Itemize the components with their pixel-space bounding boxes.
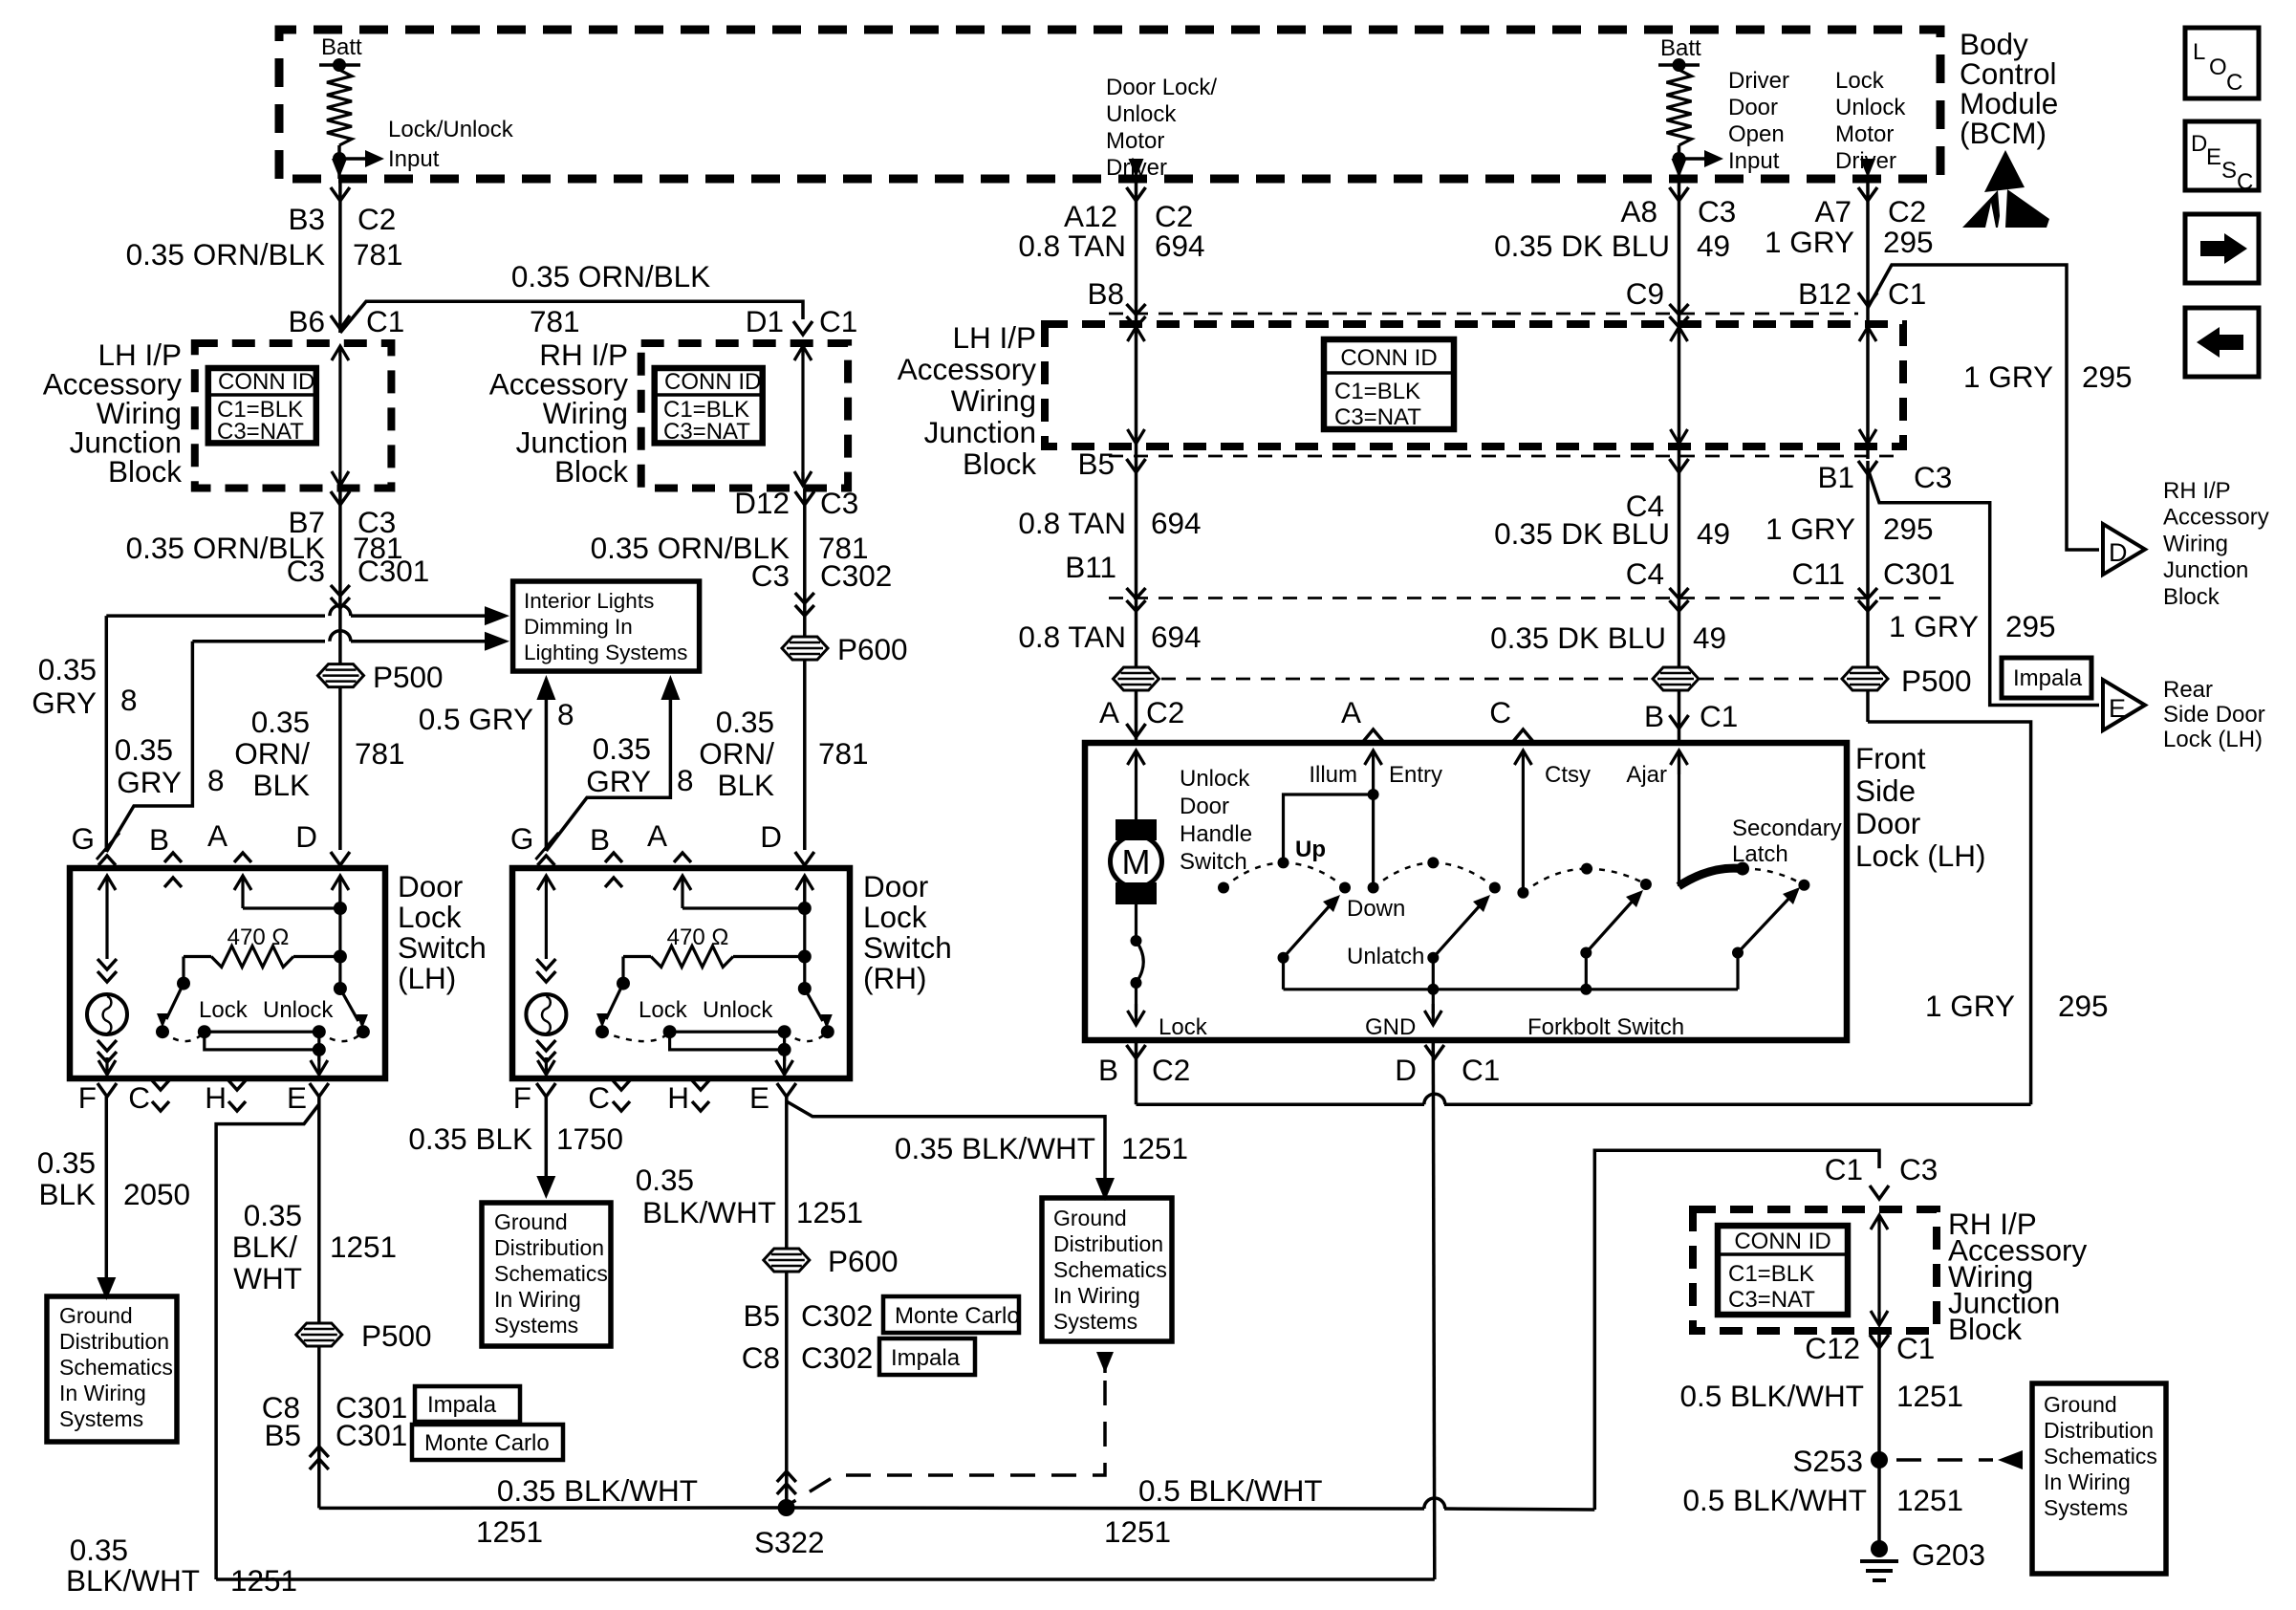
svg-text:A8: A8 [1620, 194, 1657, 228]
svg-text:1251: 1251 [1896, 1483, 1963, 1517]
svg-text:C: C [588, 1080, 610, 1115]
svg-text:Door: Door [1728, 95, 1778, 120]
svg-text:C3=NAT: C3=NAT [217, 419, 304, 445]
dashed reference from S253 to ground schematics [1896, 1458, 1993, 1462]
svg-text:0.35: 0.35 [70, 1533, 128, 1567]
svg-text:Lock: Lock [199, 997, 249, 1023]
svg-text:B: B [1644, 699, 1664, 733]
svg-text:C4: C4 [1626, 556, 1664, 591]
svg-text:Input: Input [1728, 148, 1780, 174]
wire B7/C3 below junction block [338, 489, 342, 851]
svg-text:0.35 BLK/WHT: 0.35 BLK/WHT [895, 1131, 1095, 1165]
svg-text:Entry: Entry [1389, 762, 1442, 788]
svg-text:Up: Up [1295, 837, 1326, 862]
far-left 1251 bottom run joining D/C1 ground [216, 1577, 1435, 1581]
svg-text:Impala: Impala [891, 1345, 961, 1371]
Ground Distribution box (center) [482, 1203, 611, 1346]
svg-text:C302: C302 [801, 1298, 873, 1333]
Ground Distribution box (bottom right) [2032, 1383, 2166, 1574]
svg-text:Monte Carlo: Monte Carlo [895, 1303, 1020, 1329]
down contact arc [1427, 857, 1439, 868]
svg-text:295: 295 [1883, 511, 1934, 546]
connector P500 on DK BLU wire [1653, 667, 1699, 690]
svg-text:Switch: Switch [1180, 849, 1247, 875]
Interior Lights Dimming box [513, 581, 700, 671]
svg-text:Systems: Systems [494, 1313, 578, 1338]
svg-text:Lock (LH): Lock (LH) [2163, 727, 2263, 752]
svg-text:0.35: 0.35 [37, 1145, 96, 1180]
svg-text:(LH): (LH) [398, 961, 456, 995]
svg-text:C1: C1 [1896, 1331, 1935, 1365]
svg-text:295: 295 [2005, 609, 2056, 643]
svg-text:In Wiring: In Wiring [494, 1287, 581, 1312]
svg-text:B5: B5 [743, 1298, 780, 1333]
svg-text:C2: C2 [1888, 194, 1926, 228]
svg-text:Unlock: Unlock [1180, 766, 1250, 792]
svg-text:C8: C8 [742, 1340, 780, 1375]
svg-text:1 GRY: 1 GRY [1925, 989, 2015, 1023]
ground bus inside lock [1282, 958, 1285, 990]
Body Control Module (BCM) dashed outline [279, 30, 1940, 179]
svg-text:GRY: GRY [32, 685, 97, 720]
switch G wire with lamp [105, 876, 108, 899]
svg-text:0.35 ORN/BLK: 0.35 ORN/BLK [511, 259, 710, 294]
svg-text:C3: C3 [820, 486, 858, 520]
svg-text:BLK/: BLK/ [232, 1229, 298, 1264]
svg-text:Input: Input [388, 146, 440, 172]
terminal chevrons above box edge [605, 853, 622, 862]
svg-text:B12: B12 [1798, 276, 1852, 311]
connector P500 on GRY wire [1842, 667, 1888, 690]
CONN ID table (LH I/P) [208, 368, 316, 443]
Front Side Door Lock (LH) box [1085, 743, 1847, 1040]
svg-text:G: G [510, 821, 534, 856]
svg-text:C301: C301 [336, 1418, 407, 1452]
RH I/P Accessory Wiring Junction Block (upper) dashed box [641, 343, 848, 489]
wire B3/C2 from BCM [338, 179, 342, 333]
ctsy wire [1522, 751, 1525, 893]
wire A8/C3 0.35 DK BLU 49 from BCM [1678, 179, 1681, 743]
svg-text:Wiring: Wiring [951, 383, 1036, 418]
svg-text:C301: C301 [1883, 556, 1955, 591]
svg-text:Accessory: Accessory [898, 352, 1037, 386]
svg-text:Schematics: Schematics [1053, 1257, 1167, 1282]
ESD sensitivity symbol [1984, 150, 2025, 192]
svg-text:Lock: Lock [1159, 1014, 1208, 1040]
svg-text:0.35: 0.35 [716, 705, 774, 739]
svg-text:Accessory: Accessory [2163, 505, 2269, 531]
svg-text:(RH): (RH) [863, 961, 926, 995]
svg-text:Block: Block [554, 454, 628, 489]
ground G203 [1871, 1540, 1888, 1557]
Door Lock Switch (RH) box [512, 868, 850, 1078]
connector P500 on 781 wire [318, 664, 364, 687]
svg-text:A: A [647, 818, 667, 853]
svg-text:Unlock: Unlock [1106, 101, 1177, 127]
LOC reference box [2185, 28, 2259, 98]
svg-text:GND: GND [1365, 1014, 1416, 1040]
svg-text:C3: C3 [1914, 460, 1952, 494]
svg-text:C301: C301 [357, 554, 429, 588]
switch A terminal wire [681, 876, 683, 908]
svg-text:0.35: 0.35 [115, 732, 173, 767]
svg-text:Latch: Latch [1732, 841, 1788, 867]
svg-text:Schematics: Schematics [494, 1261, 608, 1286]
svg-text:Block: Block [1948, 1312, 2022, 1346]
svg-text:781: 781 [530, 304, 580, 338]
svg-text:Interior Lights: Interior Lights [524, 589, 654, 613]
lock contact lever [606, 984, 623, 1019]
svg-text:C1=BLK: C1=BLK [1334, 379, 1420, 404]
svg-text:P500: P500 [361, 1318, 432, 1353]
svg-text:1 GRY: 1 GRY [1963, 359, 2053, 394]
svg-text:Lock (LH): Lock (LH) [1855, 838, 1986, 873]
svg-text:L: L [2193, 39, 2205, 65]
terminal D/C1 below front lock (GND) [1425, 1045, 1444, 1058]
svg-text:B5: B5 [1077, 446, 1115, 481]
svg-text:8: 8 [677, 763, 694, 797]
svg-text:G: G [71, 821, 95, 856]
dashed contact arcs [602, 1032, 670, 1041]
svg-text:Impala: Impala [2013, 665, 2083, 691]
svg-text:Block: Block [2163, 584, 2220, 610]
svg-text:0.35: 0.35 [251, 705, 310, 739]
secondary latch thick lever [1679, 868, 1743, 886]
svg-text:A: A [1099, 695, 1119, 729]
svg-text:Distribution: Distribution [494, 1235, 604, 1260]
svg-text:Door: Door [1855, 806, 1920, 840]
svg-text:Batt: Batt [321, 34, 362, 60]
svg-text:Distribution: Distribution [1053, 1231, 1163, 1256]
svg-text:P500: P500 [1901, 664, 1972, 698]
svg-text:C9: C9 [1626, 276, 1664, 311]
svg-text:Motor: Motor [1835, 121, 1894, 147]
terminal chevrons above box edge [164, 853, 182, 862]
secondary latch lever arrow [1732, 947, 1744, 959]
CONN ID table (RH I/P upper) [655, 368, 763, 443]
CONN ID table (center) [1324, 339, 1454, 429]
svg-text:C2: C2 [1146, 695, 1184, 729]
switch E wire to bottom [317, 1050, 320, 1061]
thin dashed P500 row [1161, 678, 1653, 681]
svg-text:P500: P500 [373, 660, 444, 694]
DESC reference box [2185, 121, 2259, 190]
connector chevrons on E wire [310, 1459, 329, 1469]
svg-text:C11: C11 [1792, 556, 1845, 591]
svg-text:Unlock: Unlock [703, 997, 773, 1023]
Ground Distribution box (left) [47, 1296, 177, 1442]
svg-text:C: C [128, 1080, 150, 1115]
svg-text:0.35 BLK: 0.35 BLK [408, 1121, 532, 1156]
svg-text:C12: C12 [1805, 1331, 1860, 1365]
svg-text:Schematics: Schematics [59, 1355, 173, 1380]
svg-text:8: 8 [557, 697, 574, 731]
CONN ID table (bottom) [1718, 1226, 1848, 1315]
Impala tag box (E reference) [2002, 658, 2091, 698]
switch A terminal wire [241, 876, 244, 908]
svg-text:0.35 DK BLU: 0.35 DK BLU [1494, 228, 1670, 263]
svg-text:O: O [2209, 54, 2227, 80]
svg-text:D: D [760, 819, 782, 854]
Ground Distribution box (center-right) [1042, 1198, 1172, 1341]
back arrow box [2185, 308, 2259, 377]
svg-text:Open: Open [1728, 121, 1785, 147]
svg-text:Junction: Junction [924, 415, 1036, 449]
svg-text:Monte Carlo: Monte Carlo [424, 1430, 550, 1456]
svg-text:C1: C1 [819, 304, 857, 338]
svg-text:C3=NAT: C3=NAT [663, 419, 750, 445]
svg-text:Unlatch: Unlatch [1347, 944, 1424, 969]
svg-text:B1: B1 [1817, 460, 1854, 494]
svg-text:Rear: Rear [2163, 677, 2213, 703]
svg-text:BLK: BLK [252, 768, 310, 802]
svg-text:C1: C1 [1700, 699, 1738, 733]
G terminal connector [98, 856, 116, 865]
0.35 GRY 8 wire (line 2) via corner to G [192, 640, 325, 643]
RH E branch to ground distribution (center-right) [787, 1101, 1105, 1186]
svg-text:0.5 BLK/WHT: 0.5 BLK/WHT [1682, 1483, 1867, 1517]
switch E wire to bottom [783, 1050, 786, 1061]
arrows through bottom junction block [1877, 1215, 1880, 1224]
wire F 0.35 BLK 2050 to ground [105, 1097, 109, 1284]
svg-text:Unlock: Unlock [263, 997, 334, 1023]
svg-text:C3=NAT: C3=NAT [1728, 1287, 1815, 1313]
forkbolt contact arc [1581, 863, 1592, 875]
arrows through center junction block wires [1135, 327, 1137, 337]
svg-text:BLK: BLK [717, 768, 774, 802]
svg-text:Lock: Lock [1835, 68, 1885, 94]
svg-text:B5: B5 [264, 1418, 301, 1452]
svg-text:49: 49 [1693, 620, 1726, 655]
svg-text:49: 49 [1697, 516, 1730, 551]
svg-text:C3: C3 [1698, 194, 1736, 228]
svg-text:BLK/WHT: BLK/WHT [66, 1563, 200, 1598]
svg-text:GRY: GRY [586, 764, 651, 798]
svg-text:(BCM): (BCM) [1960, 116, 2047, 150]
wire C12/C1 below bottom junction block [1877, 1331, 1881, 1549]
svg-text:694: 694 [1155, 228, 1205, 263]
svg-text:49: 49 [1697, 228, 1730, 263]
connector P600 on 781 wire [782, 637, 828, 660]
svg-text:CONN ID: CONN ID [218, 369, 314, 395]
door lock motor wire from A terminal [1135, 751, 1137, 774]
svg-text:H: H [667, 1080, 689, 1115]
wire A7/C2 1 GRY 295 from BCM [1866, 179, 1870, 308]
svg-text:8: 8 [207, 763, 225, 797]
D reference triangle to RH I/P junction [2103, 524, 2145, 575]
svg-text:GRY: GRY [117, 765, 182, 799]
svg-text:Ground: Ground [2044, 1392, 2117, 1417]
svg-text:Ground: Ground [1053, 1206, 1127, 1230]
svg-text:Secondary: Secondary [1732, 816, 1842, 841]
svg-text:Ground: Ground [59, 1303, 133, 1328]
svg-text:A: A [1341, 695, 1361, 729]
svg-text:H: H [205, 1080, 227, 1115]
thin dashed junction row 1 [1109, 313, 1858, 315]
svg-text:C3: C3 [751, 558, 790, 593]
svg-text:CONN ID: CONN ID [664, 369, 761, 395]
svg-text:B11: B11 [1065, 550, 1116, 584]
svg-text:P600: P600 [828, 1244, 899, 1278]
branch wire 781 to D1 (RH I/P junction) [340, 301, 803, 333]
svg-text:C302: C302 [820, 558, 892, 593]
svg-text:0.8 TAN: 0.8 TAN [1018, 228, 1126, 263]
wire D1-D12 through junction block [801, 346, 804, 356]
svg-text:Ajar: Ajar [1626, 762, 1667, 788]
wire RH F 0.35 BLK 1750 to ground [545, 1097, 549, 1183]
connector on TAN wire at P500 row [1114, 667, 1159, 690]
svg-text:C1=BLK: C1=BLK [1728, 1261, 1814, 1287]
svg-text:Ctsy: Ctsy [1545, 762, 1591, 788]
svg-text:B3: B3 [288, 202, 325, 236]
svg-text:Wiring: Wiring [2163, 531, 2228, 556]
switch D terminal wire [338, 876, 341, 908]
svg-text:Distribution: Distribution [59, 1329, 169, 1354]
svg-text:1750: 1750 [556, 1121, 623, 1156]
svg-text:D12: D12 [734, 486, 790, 520]
svg-text:Switch: Switch [863, 930, 952, 965]
svg-text:0.35 ORN/BLK: 0.35 ORN/BLK [126, 237, 325, 272]
svg-text:ORN/: ORN/ [699, 736, 774, 771]
0.35 GRY 8 wire RH (L-shaped) [546, 693, 670, 851]
svg-text:C1: C1 [1825, 1152, 1863, 1186]
svg-text:B: B [149, 822, 169, 857]
svg-text:C1: C1 [1888, 276, 1926, 311]
svg-text:8: 8 [120, 683, 138, 717]
switch D terminal wire [803, 876, 806, 908]
door lock motor M [1116, 819, 1157, 840]
E tap from B1/C3 to Rear Side Door Lock reference [1868, 468, 2099, 706]
svg-text:C302: C302 [801, 1340, 873, 1375]
svg-text:CONN ID: CONN ID [1734, 1229, 1830, 1254]
svg-text:Batt: Batt [1660, 35, 1701, 61]
dashed contact arcs [162, 1032, 205, 1041]
svg-text:C: C [2237, 169, 2253, 195]
svg-text:0.35: 0.35 [244, 1198, 302, 1232]
svg-text:Lock: Lock [863, 900, 927, 934]
svg-text:In Wiring: In Wiring [2044, 1469, 2131, 1494]
svg-text:295: 295 [1883, 225, 1934, 259]
svg-text:C3: C3 [287, 554, 325, 588]
forward arrow box [2185, 214, 2259, 283]
illumination lamp [526, 994, 566, 1034]
svg-text:0.8 TAN: 0.8 TAN [1018, 620, 1126, 654]
svg-text:0.8 TAN: 0.8 TAN [1018, 506, 1126, 540]
svg-text:Illum: Illum [1309, 762, 1357, 788]
svg-text:0.5 BLK/WHT: 0.5 BLK/WHT [1679, 1379, 1864, 1413]
svg-text:Lock: Lock [398, 900, 462, 934]
svg-text:0.5 BLK/WHT: 0.5 BLK/WHT [1138, 1473, 1323, 1508]
svg-text:694: 694 [1151, 620, 1202, 654]
svg-text:Dimming In: Dimming In [524, 615, 633, 639]
svg-text:C2: C2 [1152, 1053, 1190, 1087]
svg-text:Side Door: Side Door [2163, 702, 2265, 728]
svg-text:E: E [2206, 144, 2221, 170]
resistor in BCM driver door open input [1667, 70, 1692, 145]
svg-text:LH I/P: LH I/P [952, 320, 1036, 355]
svg-text:1251: 1251 [1121, 1131, 1188, 1165]
svg-text:BLK/WHT: BLK/WHT [642, 1195, 776, 1229]
connector chevrons on RH E wire [777, 1484, 796, 1494]
svg-text:Lighting Systems: Lighting Systems [524, 641, 687, 664]
svg-text:D1: D1 [746, 304, 784, 338]
svg-text:ORN/: ORN/ [234, 736, 310, 771]
switch slider bar [205, 1032, 319, 1050]
svg-text:0.35: 0.35 [636, 1163, 694, 1197]
svg-text:In Wiring: In Wiring [59, 1381, 146, 1405]
Monte Carlo tag box (right) [883, 1296, 1019, 1333]
illumination lamp [87, 994, 127, 1034]
svg-text:A7: A7 [1814, 194, 1852, 228]
svg-text:E: E [287, 1080, 307, 1115]
resistor in BCM lock/unlock input (left) [327, 70, 352, 145]
forkbolt lever arrow [1580, 947, 1592, 959]
RH switch E wire down to S322 via P600 [785, 1097, 789, 1508]
svg-text:BLK: BLK [38, 1177, 96, 1211]
svg-text:B6: B6 [288, 304, 325, 338]
svg-text:0.35: 0.35 [593, 731, 651, 766]
svg-text:Block: Block [963, 446, 1036, 481]
svg-text:0.35 DK BLU: 0.35 DK BLU [1494, 516, 1670, 551]
lock contact lever [166, 984, 184, 1019]
S322 riser to RH I/P junction block [1594, 1150, 1879, 1510]
svg-text:Systems: Systems [59, 1406, 143, 1431]
svg-text:Door: Door [1180, 794, 1229, 819]
svg-text:1 GRY: 1 GRY [1889, 609, 1979, 643]
svg-text:Handle: Handle [1180, 821, 1252, 847]
switch G wire with lamp [545, 876, 548, 899]
svg-text:Door: Door [863, 869, 928, 903]
svg-text:Systems: Systems [2044, 1495, 2128, 1520]
svg-text:0.5 GRY: 0.5 GRY [419, 702, 533, 736]
svg-text:Lock/Unlock: Lock/Unlock [388, 117, 514, 142]
motor lock switch contact [1135, 904, 1137, 941]
Impala tag box (right) [879, 1338, 975, 1375]
LH switch E wire down to S322 [317, 1097, 321, 1508]
svg-text:781: 781 [353, 237, 403, 272]
svg-text:Distribution: Distribution [2044, 1418, 2154, 1443]
svg-text:Unlock: Unlock [1835, 95, 1906, 120]
svg-text:WHT: WHT [233, 1261, 302, 1295]
LH switch E wire branch to far-left 1251 run [216, 1104, 319, 1579]
LH I/P Accessory Wiring Junction Block (center) dashed box [1045, 324, 1903, 446]
bottom run to S322 splice [319, 1506, 787, 1510]
svg-text:0.35 DK BLU: 0.35 DK BLU [1490, 620, 1666, 655]
svg-text:C: C [1489, 695, 1511, 729]
svg-text:Side: Side [1855, 773, 1916, 808]
svg-text:C1: C1 [1462, 1053, 1500, 1087]
svg-text:C: C [2226, 70, 2242, 96]
svg-text:Lock: Lock [639, 997, 688, 1023]
splice S253 [1871, 1451, 1888, 1469]
svg-text:1 GRY: 1 GRY [1765, 225, 1854, 259]
svg-text:P600: P600 [837, 632, 908, 666]
lock/unlock input arrow [339, 157, 367, 161]
thin dashed junction row 3 [1109, 597, 1940, 599]
svg-text:C1: C1 [366, 304, 404, 338]
svg-text:D: D [2109, 538, 2128, 567]
0.5 GRY 8 wire RH switch G to interior lights [545, 693, 549, 851]
svg-text:S: S [2221, 158, 2237, 184]
GRY wire corner to right side down-run [1868, 722, 2031, 1104]
svg-text:1251: 1251 [230, 1563, 297, 1598]
svg-text:S322: S322 [754, 1525, 825, 1559]
svg-text:F: F [513, 1080, 531, 1115]
terminal B/C2 below front lock [1127, 1045, 1146, 1058]
svg-text:Impala: Impala [427, 1392, 497, 1418]
dashed tie from ground box to S322 [1103, 1355, 1107, 1373]
svg-text:1251: 1251 [796, 1195, 863, 1229]
